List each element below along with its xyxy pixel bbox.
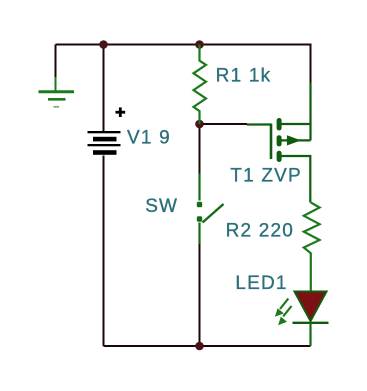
channel blob source: [277, 151, 282, 162]
junction node top battery: [99, 40, 108, 49]
transistor T1 (P-MOSFET): [247, 83, 311, 203]
svg-text:LED1: LED1: [235, 273, 287, 294]
LED1 lead to bottom wire: [309, 323, 311, 346]
LED1 diode triangle: [295, 292, 327, 322]
junction node gate: [195, 120, 204, 129]
svg-text:R1 1k: R1 1k: [216, 65, 272, 86]
drain stub: [281, 123, 311, 125]
ground: [39, 77, 75, 107]
switch SW: [197, 174, 224, 245]
body arrow: [287, 135, 301, 145]
junction node top R1: [195, 40, 204, 49]
gate bar: [270, 124, 273, 160]
body-drain connector: [309, 124, 311, 140]
resistor R2: [304, 203, 320, 292]
gate lead: [247, 123, 271, 125]
wire R1 bottom to switch: [199, 124, 201, 175]
wire battery top: [103, 45, 105, 132]
svg-text:R2 220: R2 220: [226, 221, 294, 242]
wire top horizontal: [56, 44, 311, 46]
LED1 cathode bar: [293, 322, 329, 324]
body stub: [281, 139, 311, 141]
wire battery bottom: [103, 156, 105, 347]
junction node bottom: [195, 342, 204, 351]
wire ground branch: [55, 45, 57, 78]
resistor R1: [194, 45, 207, 125]
channel blob drain: [277, 118, 282, 131]
wire right vertical to transistor drain: [310, 44, 312, 84]
svg-text:V1 9: V1 9: [127, 127, 171, 148]
svg-text:T1 ZVP: T1 ZVP: [230, 166, 302, 187]
battery plus sign: [116, 107, 126, 117]
wire bottom horizontal: [104, 345, 311, 347]
drain lead up: [309, 83, 311, 125]
channel blob body: [277, 135, 282, 146]
source stub: [281, 156, 310, 203]
svg-text:SW: SW: [145, 196, 178, 217]
wire gate: [200, 123, 248, 125]
LED1 light arrow upper: [275, 299, 288, 317]
battery V1: [88, 131, 121, 155]
wire switch to bottom: [199, 244, 201, 347]
LED1 light arrow lower: [278, 306, 291, 325]
